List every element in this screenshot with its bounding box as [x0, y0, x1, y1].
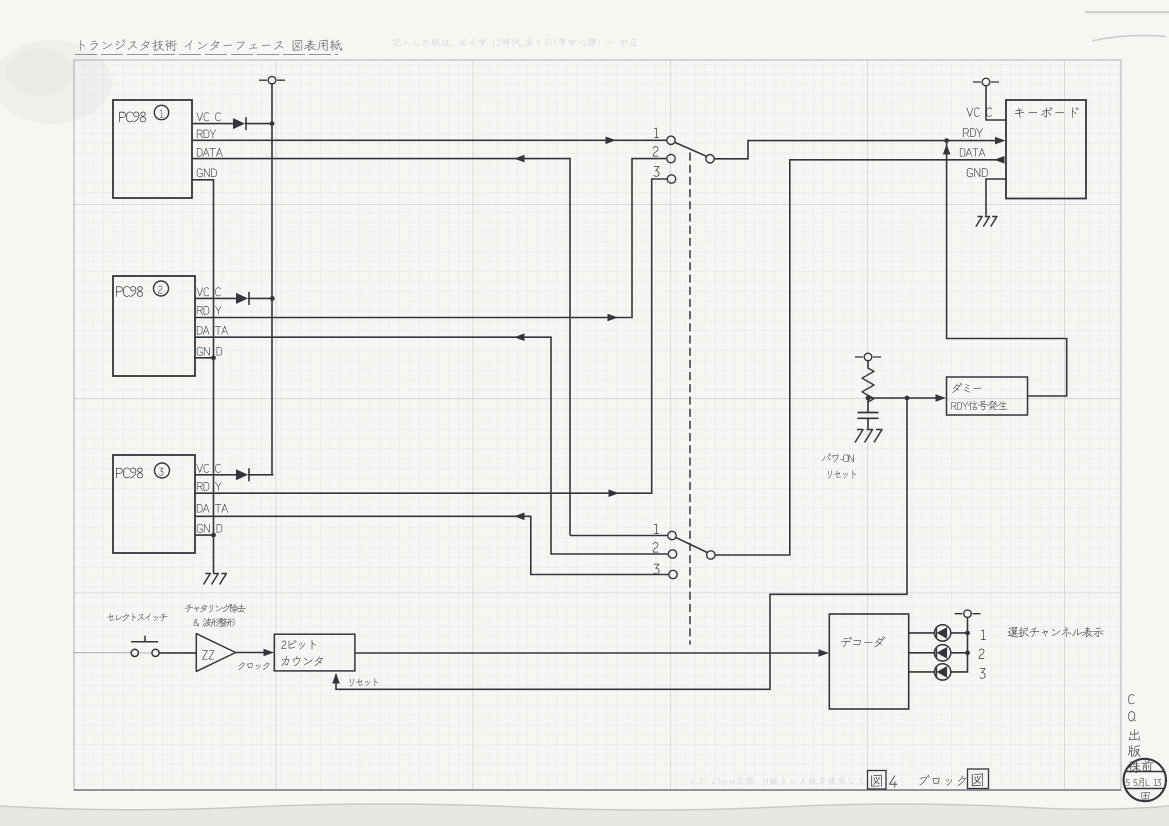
switch SW-RDY contact 3 [667, 175, 675, 183]
switch SW-DATA pole [707, 551, 715, 559]
wire DATA PC98-3 to lower switch contact 3 [195, 516, 669, 574]
wire keyboard VCC [986, 86, 1006, 120]
wire dummy output to keyboard RDY [947, 143, 1067, 396]
block PC98-1 [113, 100, 192, 198]
switch SW-RDY contact 1 [667, 136, 675, 144]
pin label keyboard DATA [960, 148, 985, 157]
wire R-C junction to dummy box [868, 397, 943, 399]
label contact 1 bottom [654, 524, 659, 534]
switch SW-RDY contact 2 [667, 154, 675, 162]
pin label keyboard RDY [963, 128, 983, 137]
pin label RDY 1 [197, 129, 216, 138]
block keyboard [1006, 100, 1086, 199]
label 2bit [282, 640, 316, 650]
ground symbol keyboard [976, 217, 997, 227]
LED 1 [934, 625, 950, 641]
wire RDY PC98-3 to switch contact 3 [195, 179, 667, 493]
pushbutton select switch [131, 636, 159, 657]
label keyboard [1015, 107, 1079, 118]
power symbol power-on-reset [855, 353, 881, 361]
label channel display [1008, 627, 1104, 638]
label zu boxed [871, 775, 881, 787]
ground symbol power-on-reset [855, 430, 882, 443]
wire between pushbutton contacts (faint) [139, 652, 152, 654]
pin label GND 2 [197, 347, 222, 356]
border frame bottom dark edge [74, 789, 1121, 791]
switch SW-DATA contact 3 [669, 570, 677, 578]
wire VCC PC98-1 [192, 123, 272, 125]
title underline [75, 54, 338, 56]
label reset-2 [350, 678, 378, 686]
wire DATA PC98-1 to lower switch contact 1 [192, 159, 668, 536]
wire decoder out 3 [909, 671, 935, 673]
label PC98-3 [116, 468, 143, 479]
pin label VCC 1 [196, 112, 220, 121]
label wave shaping [194, 618, 236, 627]
circled 3 [155, 463, 170, 478]
label RDY signal gen [951, 401, 1007, 411]
ganged switch dashed link [689, 153, 691, 644]
pin label RDY 2 [197, 306, 222, 315]
junction VCC1 [270, 121, 275, 126]
power symbol VCC top-left [259, 76, 285, 84]
junction RDY-keyboard [944, 138, 949, 143]
label PC98-2 [116, 286, 143, 297]
capacitor C power-on [858, 413, 879, 419]
faint footer note [690, 777, 893, 785]
junction GND2 [211, 355, 216, 360]
wire power-on reset to counter [336, 398, 907, 689]
junction LED2 [965, 650, 970, 655]
block decoder [829, 614, 908, 709]
label power-on [822, 454, 854, 463]
schmitt trigger buffer [196, 634, 235, 672]
pin label keyboard GND [967, 168, 988, 177]
wire LED1 to common [951, 632, 968, 634]
pin label GND 3 [197, 524, 222, 533]
wire VCC PC98-3 [195, 474, 273, 476]
label block [920, 775, 966, 786]
label select switch [107, 613, 168, 621]
label clock [239, 662, 270, 670]
label contact 2 top [653, 146, 659, 156]
junction VCC2 [270, 296, 275, 301]
label decoder [841, 636, 885, 647]
diode D3 [236, 468, 249, 481]
figure label boxes [868, 771, 887, 790]
switch SW-DATA contact 2 [668, 550, 676, 558]
label reset-1 [828, 470, 856, 478]
label PC98-1 [119, 112, 146, 123]
junction reset tap [905, 396, 910, 401]
wire decoder out 1 [909, 632, 935, 634]
label counter [282, 656, 323, 666]
label contact 2 bottom [653, 542, 659, 552]
pin label DATA 3 [197, 504, 228, 513]
wire resistor to capacitor [867, 398, 869, 413]
wire counter to decoder [355, 652, 826, 654]
pin label DATA 2 [197, 326, 228, 335]
label debounce [185, 604, 246, 613]
pin label DATA 1 [197, 148, 223, 157]
label contact 3 top [653, 166, 659, 176]
label dummy [952, 383, 981, 393]
wire keyboard GND [986, 179, 1006, 215]
wire SW-RDY pole to keyboard RDY [715, 141, 1003, 159]
date stamp [1124, 759, 1166, 801]
wire LED2 to common [951, 652, 968, 654]
wire GND PC98-2 stub [195, 357, 214, 359]
wire RDY PC98-2 to switch contact 2 [195, 159, 666, 318]
pin label VCC 2 [196, 287, 220, 296]
junction GND3 [211, 533, 216, 538]
wire capacitor to ground [867, 418, 869, 428]
label contact 1 top [654, 128, 659, 138]
label contact 3 bottom [653, 564, 659, 574]
wire LED3 to common and up [951, 618, 968, 672]
label LED 1 [981, 630, 986, 640]
resistor R power-on [862, 368, 874, 402]
label LED 2 [979, 649, 985, 659]
diode D2 [236, 292, 249, 305]
block PC98-2 [113, 276, 195, 376]
graph paper minor grid [74, 60, 1121, 790]
wire RDY PC98-1 to switch contact 1 [192, 139, 666, 141]
label LED 3 [979, 668, 985, 678]
switch SW-RDY pole [706, 155, 714, 163]
switch SW-DATA wiper [676, 538, 707, 553]
label zu-2 boxed [972, 773, 983, 786]
wire DATA PC98-2 to lower switch contact 2 [195, 337, 668, 554]
wire pushbutton to schmitt [159, 652, 196, 654]
wire decoder out 2 [909, 652, 935, 654]
wire keyboard DATA to SW-DATA pole [715, 160, 1003, 555]
LED 3 [934, 664, 950, 680]
pin label VCC 3 [196, 464, 220, 473]
border frame [74, 60, 1121, 790]
block 2-bit counter [274, 634, 355, 671]
switch SW-DATA contact 1 [668, 531, 676, 539]
title text [80, 39, 342, 51]
circled 1 [154, 105, 168, 119]
block PC98-3 [113, 455, 195, 553]
LED 2 [934, 645, 950, 661]
publisher vertical text CQ [1128, 694, 1141, 773]
wire frame to pushbutton (faint) [74, 652, 131, 654]
wire schmitt to counter [236, 652, 271, 654]
wire VCC bus vertical [271, 84, 273, 475]
circled 2 [154, 281, 169, 296]
faint header note [393, 38, 638, 48]
power symbol LED common [955, 610, 981, 618]
pin label keyboard VCC [967, 108, 992, 117]
wire GND PC98-3 stub [195, 534, 214, 536]
junction R-C [866, 396, 871, 401]
pin label RDY 3 [197, 482, 222, 491]
ground symbol PC98 common [204, 574, 227, 585]
wire power to resistor [867, 361, 869, 368]
pin label GND 1 [197, 168, 217, 177]
switch SW-RDY wiper [675, 143, 706, 157]
wire VCC PC98-2 [195, 297, 272, 299]
diode D1 [233, 117, 246, 130]
graph paper major grid [74, 60, 1121, 790]
label 4 [889, 775, 897, 787]
junction LED1 [965, 631, 970, 636]
power symbol keyboard VCC [973, 78, 999, 86]
block dummy RDY generator [947, 377, 1028, 415]
wire GND bus [192, 180, 214, 573]
